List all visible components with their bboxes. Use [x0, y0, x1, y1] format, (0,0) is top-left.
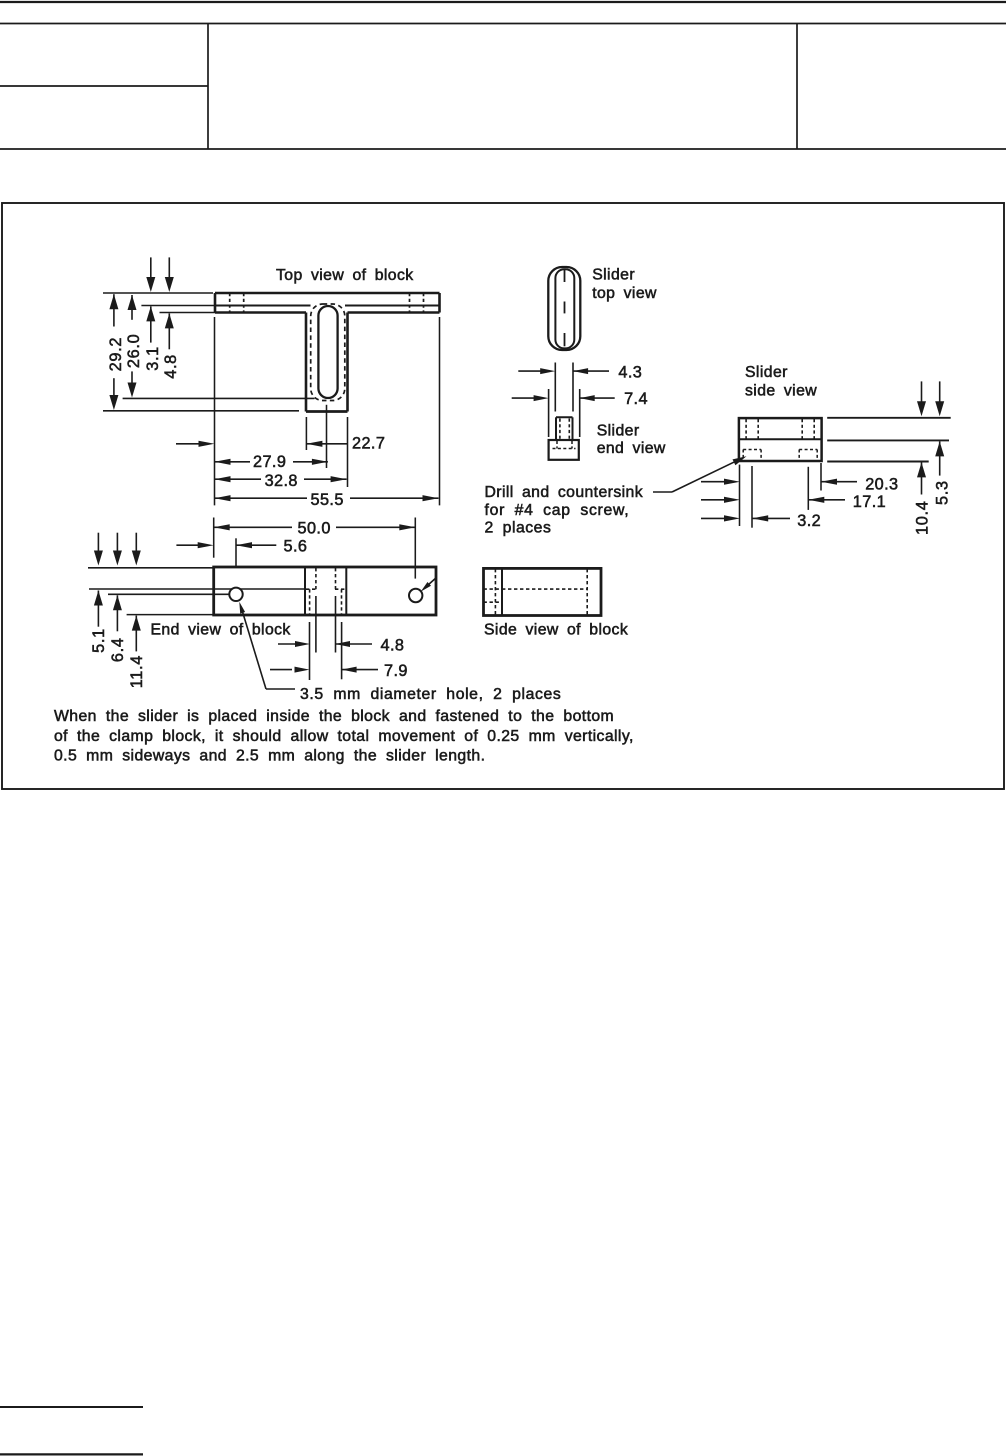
dim 5.6 outside arrow — [176, 542, 213, 548]
svg-text:side view: side view — [745, 383, 817, 400]
side view ext lines below — [740, 463, 822, 528]
dim 4.8 end view — [278, 641, 372, 647]
side view solid vertical — [501, 568, 503, 615]
leader 3.5mm hole — [239, 602, 295, 689]
dim 3.1 label — [144, 346, 162, 371]
slider end view base — [549, 440, 579, 460]
dim 4.3 line — [518, 368, 609, 374]
dim 55.5 line — [215, 495, 439, 501]
svg-text:4.3: 4.3 — [618, 364, 642, 382]
table header row bottom line — [0, 23, 1006, 25]
svg-text:10.4: 10.4 — [913, 501, 931, 536]
end view block outline — [214, 567, 436, 615]
title: Top view of block — [276, 267, 414, 284]
slider side view box — [739, 418, 822, 461]
dim 50.0 label — [298, 520, 331, 538]
end view slot dashed lower — [310, 589, 342, 614]
dim 4.8 label — [162, 354, 180, 379]
ext line slot center x326 — [326, 405, 328, 468]
top view hidden hole lines right — [410, 293, 424, 313]
slider bar bottom line — [827, 461, 929, 463]
slider end ext lines 4.3 — [555, 363, 573, 412]
dim 4.8 arrow — [165, 313, 174, 349]
hole right circle — [409, 589, 422, 602]
dim 10.4 label — [913, 501, 931, 536]
svg-text:4.8: 4.8 — [381, 637, 405, 655]
svg-text:Top view of block: Top view of block — [276, 267, 414, 284]
end view top edge extension — [88, 567, 213, 569]
label Side view of block — [484, 621, 628, 638]
dim 5.1 arrow — [94, 591, 103, 627]
dim 32.8 line — [215, 476, 347, 482]
paragraph line 3 — [54, 748, 485, 765]
dim 6.4 arrow — [113, 595, 122, 631]
dim 17.1 line — [808, 497, 845, 503]
dim 22.7 right arrow — [306, 441, 347, 447]
ext line stem left x306 — [305, 417, 307, 450]
svg-text:Slider: Slider — [745, 364, 788, 381]
label End view of block — [151, 621, 291, 638]
slider side dashed screw holes — [746, 419, 814, 439]
svg-text:17.1: 17.1 — [853, 493, 886, 511]
slider end view stem dashed — [560, 419, 569, 441]
table bottom line — [0, 148, 1006, 150]
table top border line — [0, 1, 1006, 3]
svg-text:6.4: 6.4 — [109, 637, 127, 662]
svg-text:55.5: 55.5 — [311, 491, 344, 509]
label Slider top view — [592, 267, 657, 303]
dim 4.8 end view label — [381, 637, 405, 655]
dim 3.2 line — [752, 515, 790, 521]
dim 5.6 ext line — [235, 538, 237, 567]
table vertical divider right — [796, 24, 798, 150]
svg-text:0.5 mm sideways and 2.5 mm alo: 0.5 mm sideways and 2.5 mm along the sli… — [54, 748, 485, 765]
dim 5.3 label — [934, 480, 952, 505]
svg-text:5.6: 5.6 — [284, 538, 308, 556]
svg-text:7.9: 7.9 — [384, 662, 408, 680]
footnote separator line 2 — [0, 1453, 143, 1455]
end view slot dashed upper — [316, 568, 336, 589]
dim 50.0 line — [214, 524, 416, 530]
dim 50.0 ext lines — [214, 518, 416, 579]
ext line left edge x215 — [214, 317, 216, 505]
slider side view mid line — [739, 438, 822, 440]
end view bottom edge extension — [127, 614, 214, 616]
dim 5.3 arrow — [935, 441, 944, 475]
svg-text:27.9: 27.9 — [253, 453, 286, 471]
dim 22.7 left outside arrow — [176, 441, 215, 447]
dim 27.9 line — [215, 459, 328, 465]
note 3.5 mm diameter hole — [300, 686, 561, 703]
dim 3.1 arrow — [146, 306, 155, 342]
dim 32.8 label — [265, 472, 298, 490]
slider bar mid line — [827, 439, 949, 441]
svg-text:3.2: 3.2 — [797, 512, 821, 530]
top view block bar outline — [103, 293, 440, 313]
footnote separator line 1 — [0, 1406, 143, 1408]
svg-text:20.3: 20.3 — [865, 476, 898, 494]
dim 20.3 line — [821, 479, 857, 485]
dim 7.4 label — [624, 390, 648, 408]
svg-text:Slider: Slider — [597, 422, 640, 439]
svg-text:3.1: 3.1 — [144, 346, 162, 371]
svg-text:29.2: 29.2 — [107, 337, 125, 372]
svg-text:22.7: 22.7 — [352, 435, 385, 453]
slider top view inner capsule — [555, 269, 574, 348]
svg-text:end view: end view — [597, 440, 666, 457]
top view hidden hole lines left — [230, 293, 244, 313]
hole left circle — [229, 588, 242, 601]
dim 3.2 label — [797, 512, 821, 530]
svg-text:26.0: 26.0 — [125, 334, 143, 369]
line at 26.0 (slot bottom) extension — [123, 397, 315, 399]
dim 6.4 label — [109, 637, 127, 662]
svg-text:top view: top view — [592, 285, 657, 302]
dim 29.2 arrows — [109, 294, 118, 410]
dim 5.6 arrow — [236, 542, 276, 548]
dim 11.4 arrow — [132, 616, 141, 652]
dim 55.5 label — [311, 491, 344, 509]
svg-text:3.5 mm diameter hole, 2 places: 3.5 mm diameter hole, 2 places — [300, 686, 561, 703]
top view bar internal line 3.1 — [141, 305, 439, 307]
svg-text:2 places: 2 places — [485, 520, 552, 537]
dim 26.0 label — [125, 334, 143, 369]
figure border box — [2, 203, 1004, 789]
dim 5.6 label — [284, 538, 308, 556]
line at 29.2 (stem bottom) extension — [103, 410, 299, 412]
line to hole center 6.4 — [108, 593, 229, 595]
svg-text:When the slider is placed insi: When the slider is placed inside the blo… — [54, 708, 614, 725]
end view slot solid lower lines — [316, 596, 336, 653]
svg-text:End view of block: End view of block — [151, 621, 291, 638]
leader drill note — [653, 456, 747, 492]
end view slot solid verticals — [305, 567, 346, 615]
svg-text:4.8: 4.8 — [162, 354, 180, 379]
end view mid horizontal line — [89, 588, 305, 590]
slider top view center dashes — [564, 270, 566, 346]
slider side dashed countersinks — [743, 450, 817, 460]
dim 11.4 label — [128, 655, 146, 688]
label Slider end view — [597, 422, 666, 457]
svg-text:Drill and countersink: Drill and countersink — [485, 484, 644, 501]
dim 27.9 label — [253, 453, 286, 471]
svg-text:of the clamp block, it should: of the clamp block, it should allow tota… — [54, 728, 634, 745]
dim 29.2 label — [107, 337, 125, 372]
slider top view outer capsule — [548, 267, 580, 350]
dim 7.9 line — [270, 667, 378, 673]
dim 20.3 label — [865, 476, 898, 494]
svg-text:Side view of block: Side view of block — [484, 621, 628, 638]
slider end ext lines 7.4 — [549, 389, 580, 437]
table vertical divider left — [207, 24, 209, 150]
svg-text:for #4 cap screw,: for #4 cap screw, — [485, 502, 630, 519]
dim ref down-arrow for 4.8 — [165, 257, 174, 292]
dim 7.4 line — [512, 395, 615, 401]
note Drill and countersink — [485, 484, 644, 537]
paragraph line 2 — [54, 728, 634, 745]
three down arrows end view — [94, 533, 141, 566]
ext line right edge x439 — [439, 317, 441, 505]
side view left dashes — [484, 589, 503, 602]
right hole pointer — [421, 578, 436, 592]
dim 4.3 label — [618, 364, 642, 382]
top view slot solid capsule — [318, 306, 337, 398]
end view slot step dashes — [306, 588, 346, 590]
slider end view stem — [556, 417, 573, 440]
svg-text:Slider: Slider — [592, 267, 635, 284]
dim 5.1 label — [90, 628, 108, 653]
svg-text:11.4: 11.4 — [128, 655, 146, 688]
svg-text:5.3: 5.3 — [934, 480, 952, 505]
svg-text:5.1: 5.1 — [90, 628, 108, 653]
dim 26.0 arrows — [128, 295, 137, 398]
dim ref down-arrow for 3.1 — [146, 257, 155, 292]
table left column divider line — [0, 85, 208, 87]
side view block outline — [484, 568, 602, 615]
top view stem outline — [306, 313, 348, 412]
ext lines 7.9 — [310, 622, 342, 680]
svg-text:50.0: 50.0 — [298, 520, 331, 538]
dim 7.9 label — [384, 662, 408, 680]
top view slot dashed outline — [311, 304, 345, 401]
slider bar top line — [827, 417, 951, 419]
side view dashed verticals — [495, 569, 587, 615]
down arrows right — [917, 381, 944, 416]
side view dashed horizontal — [502, 588, 587, 590]
dim 17.1 label — [853, 493, 886, 511]
slider end view base dashed — [553, 441, 576, 449]
svg-text:32.8: 32.8 — [265, 472, 298, 490]
svg-text:7.4: 7.4 — [624, 390, 648, 408]
left arrows side view — [701, 479, 740, 522]
dim 22.7 label — [352, 435, 385, 453]
ext line stem right x347 — [347, 417, 349, 487]
label Slider side view — [745, 364, 817, 400]
dim 10.4 arrow — [917, 462, 926, 494]
paragraph line 1 — [54, 708, 614, 725]
